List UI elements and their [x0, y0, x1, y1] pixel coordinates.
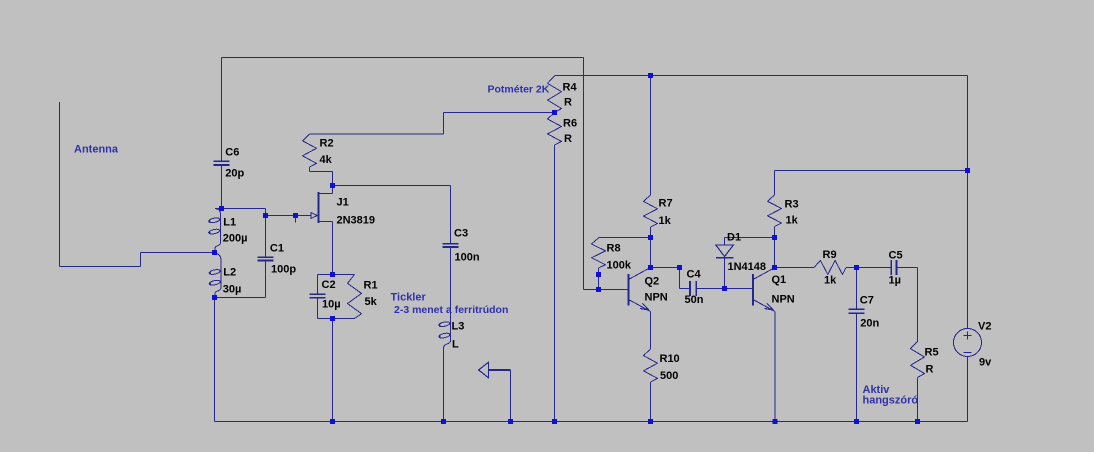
node R3-D1 junction: [772, 235, 777, 240]
svg-text:R7: R7: [659, 198, 673, 210]
node R7-R8 junction: [648, 235, 653, 240]
svg-text:20p: 20p: [225, 168, 244, 180]
svg-text:L1: L1: [223, 217, 236, 229]
svg-text:1µ: 1µ: [889, 275, 901, 287]
wire supply rail upper: [555, 76, 968, 329]
wire D1 branch horizontal: [725, 238, 775, 246]
svg-text:R9: R9: [823, 249, 837, 261]
resistor R7: [644, 195, 673, 227]
wire D1 node to Q1 collector node: [774, 238, 776, 268]
wire C2 R1 top bracket: [318, 274, 355, 276]
svg-text:R2: R2: [320, 138, 334, 150]
wire drain node to C3: [333, 186, 451, 245]
svg-text:30µ: 30µ: [223, 284, 242, 296]
node rail junction C7: [854, 419, 859, 424]
wire R7 bottom to R8 node: [599, 227, 651, 238]
node C4 corner junction: [677, 265, 682, 270]
resistor R6: [548, 113, 578, 146]
svg-text:2-3 menet a ferritrúdon: 2-3 menet a ferritrúdon: [394, 304, 508, 316]
wire C1 top lead: [265, 216, 267, 258]
arrow annotation: [479, 362, 511, 421]
resistor R10: [644, 349, 680, 382]
node D1-C4-Q1 junction: [722, 286, 727, 291]
node R8 pin junction: [596, 272, 601, 277]
svg-text:D1: D1: [727, 232, 741, 244]
node rail junction L3: [441, 419, 446, 424]
svg-text:Antenna: Antenna: [74, 144, 119, 156]
svg-text:hangszóró: hangszóró: [863, 395, 919, 407]
wire J1 source lead: [320, 222, 333, 275]
wire C6 bottom to node: [221, 166, 223, 209]
resistor R2: [303, 134, 334, 167]
wire V2 bottom lead: [967, 357, 969, 422]
resistor R9: [814, 249, 846, 287]
svg-text:5k: 5k: [365, 296, 378, 308]
svg-text:500: 500: [660, 370, 678, 382]
wire C1 bottom to L2 node: [215, 261, 266, 297]
svg-text:C7: C7: [860, 295, 874, 307]
node L2-C1 junction: [212, 295, 217, 300]
label aktiv hangszoro: [863, 384, 919, 407]
resistor R8: [592, 238, 632, 272]
wire R3 top rail connection: [775, 171, 968, 196]
node rail junction arrow: [508, 419, 513, 424]
wire Q2 collector to C4: [651, 268, 691, 289]
svg-text:R5: R5: [925, 347, 939, 359]
capacitor C5: [889, 250, 903, 287]
wire R8 bottom lead: [598, 268, 600, 290]
node Q2 collector junction: [648, 265, 653, 270]
wire ground rail bottom: [215, 421, 968, 423]
wire Q2 emitter to R10: [650, 312, 652, 350]
node potmeter wiper junction: [552, 110, 557, 115]
svg-text:R8: R8: [607, 243, 621, 255]
svg-text:1k: 1k: [786, 215, 799, 227]
wire R9 to C7 node: [846, 267, 891, 269]
node Q2 base junction: [596, 287, 601, 292]
wire stub below gate wire: [295, 216, 297, 223]
svg-text:L3: L3: [452, 321, 465, 333]
wire potmeter wiper to R2: [310, 113, 555, 135]
svg-text:C4: C4: [687, 269, 702, 281]
svg-text:R: R: [926, 364, 934, 376]
inductor L3: [438, 316, 464, 351]
node rail junction R10: [648, 419, 653, 424]
svg-text:C1: C1: [270, 243, 284, 255]
capacitor C3: [443, 228, 480, 264]
svg-text:C5: C5: [889, 250, 903, 262]
label potmeter note: [488, 84, 550, 96]
transistor J1 2N3819: [311, 192, 375, 226]
resistor R5: [911, 342, 939, 378]
wire R10 bottom to rail: [650, 382, 652, 422]
resistor R1: [348, 275, 378, 319]
diode D1 1N4148: [716, 232, 766, 274]
transistor Q1 NPN: [753, 268, 795, 312]
svg-text:100k: 100k: [607, 260, 632, 272]
wire C3 bottom to L3: [450, 248, 452, 316]
wire L3 bottom to rail: [443, 349, 445, 422]
svg-text:NPN: NPN: [645, 292, 668, 304]
svg-text:R6: R6: [563, 118, 577, 130]
wire C5 right to R5: [897, 268, 918, 342]
capacitor C1: [258, 243, 297, 276]
transistor Q2 NPN: [629, 268, 668, 312]
wire Q1 collector to R9: [775, 267, 815, 269]
svg-text:50n: 50n: [685, 294, 704, 306]
svg-text:R1: R1: [364, 280, 378, 292]
node C7 top junction: [854, 265, 859, 270]
svg-text:C6: C6: [225, 147, 239, 159]
antenna label: [74, 144, 119, 156]
svg-text:L: L: [452, 339, 459, 351]
wire R6 bottom to rail: [554, 145, 556, 422]
capacitor C2: [310, 279, 341, 311]
wire C6 top: [221, 58, 223, 162]
node C6-L1 junction: [219, 206, 224, 211]
wire R5 bottom to rail: [917, 378, 919, 422]
node C1 top junction: [263, 213, 268, 218]
svg-text:200µ: 200µ: [223, 233, 248, 245]
svg-text:R: R: [564, 97, 572, 109]
node Q1 collector junction: [772, 265, 777, 270]
svg-text:4k: 4k: [320, 154, 333, 166]
wire C7 top lead: [856, 268, 858, 310]
capacitor C4: [685, 269, 704, 307]
node J1 drain junction: [330, 183, 335, 188]
wire Q1 emitter to rail: [774, 312, 776, 422]
voltage source V2: [954, 321, 993, 369]
svg-text:Q2: Q2: [645, 276, 660, 288]
svg-text:Q1: Q1: [772, 274, 787, 286]
svg-text:R10: R10: [660, 353, 680, 365]
wire base net Q2: [584, 289, 629, 291]
label tickler note: [391, 292, 509, 317]
wire R2 bottom to drain node: [310, 167, 333, 186]
node R3 rail corner junction: [965, 168, 970, 173]
wire top rail: [222, 58, 584, 290]
wire C2 leads: [317, 275, 319, 319]
svg-text:L2: L2: [223, 267, 236, 279]
node R7 top rail junction: [648, 73, 653, 78]
svg-text:V2: V2: [978, 321, 991, 333]
node rail junction Q1 emitter: [773, 419, 778, 424]
svg-text:R4: R4: [563, 82, 578, 94]
node J1 source junction: [330, 272, 335, 277]
svg-text:1N4148: 1N4148: [728, 261, 767, 273]
node C2-R1 bottom junction: [330, 316, 335, 321]
svg-text:Potméter 2K: Potméter 2K: [488, 84, 550, 96]
node antenna tap junction: [212, 250, 217, 255]
svg-text:NPN: NPN: [772, 294, 795, 306]
inductor L1: [208, 209, 247, 253]
capacitor C7: [849, 295, 880, 330]
wire R3 bottom to D1 node: [774, 227, 776, 238]
node rail junction R6: [552, 419, 557, 424]
capacitor C6: [214, 147, 245, 180]
wire gate net horizontal: [222, 209, 312, 216]
svg-text:2N3819: 2N3819: [337, 214, 376, 226]
svg-text:C3: C3: [454, 228, 468, 240]
node rail junction C2R1: [330, 419, 335, 424]
wire antenna: [60, 102, 215, 267]
wire J1 drain lead: [320, 186, 333, 194]
svg-text:100p: 100p: [271, 264, 296, 276]
svg-text:Tickler: Tickler: [391, 292, 427, 304]
node rail junction R5: [915, 419, 920, 424]
svg-text:R: R: [564, 133, 572, 145]
resistor R4: [548, 76, 578, 113]
wire L2 bottom to ground rail: [214, 298, 216, 422]
wire C4 to Q1 base: [696, 288, 752, 290]
svg-text:10µ: 10µ: [322, 299, 341, 311]
resistor R3: [768, 195, 799, 227]
wire C7 bottom to rail: [856, 313, 858, 421]
node gate wire junction: [293, 213, 298, 218]
svg-text:R3: R3: [785, 199, 799, 211]
svg-text:C2: C2: [322, 279, 336, 291]
svg-text:100n: 100n: [455, 251, 480, 263]
svg-text:20n: 20n: [860, 318, 879, 330]
wire D1 cathode lead: [724, 259, 726, 289]
wire Q2 collector lead: [650, 238, 652, 268]
svg-text:J1: J1: [337, 197, 349, 209]
svg-text:9v: 9v: [979, 357, 992, 369]
wire R7 top lead: [650, 76, 652, 196]
svg-text:1k: 1k: [824, 275, 837, 287]
wire C2 R1 bottom bracket: [318, 319, 355, 422]
svg-text:1k: 1k: [659, 215, 672, 227]
inductor L2: [209, 253, 242, 298]
